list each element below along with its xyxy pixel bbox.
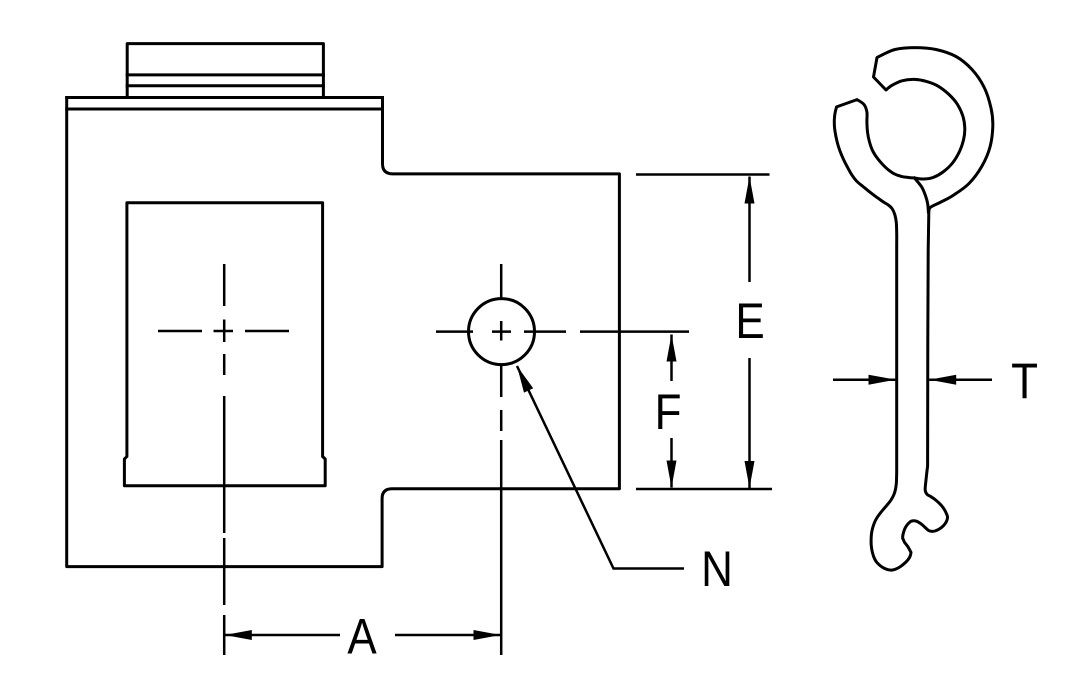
side view stem to hole junction line — [915, 178, 929, 212]
front view: serrated mounting tab — [127, 44, 323, 98]
N leader arrowhead — [517, 366, 533, 393]
A right arrowhead — [474, 630, 501, 640]
svg-text:A: A — [347, 608, 377, 664]
dimension A line — [225, 634, 501, 637]
E bottom arrowhead — [745, 461, 755, 488]
E top extension line — [636, 173, 770, 176]
T left arrowhead — [869, 375, 896, 385]
window horizontal centerline — [158, 330, 289, 333]
F bottom arrowhead — [667, 461, 677, 488]
window vertical centerline — [223, 264, 226, 655]
A left arrowhead — [225, 630, 252, 640]
svg-text:F: F — [655, 383, 682, 439]
dimension T left arrow line — [833, 378, 896, 381]
hole N — [469, 299, 535, 365]
tab rib line 2 — [127, 84, 323, 87]
tab rib line 1 — [127, 73, 323, 76]
svg-text:N: N — [701, 540, 733, 596]
E/F bottom extension line — [636, 488, 772, 491]
hole horizontal centerline — [436, 330, 566, 333]
hole vertical centerline — [500, 264, 503, 655]
dimension E line — [748, 177, 751, 489]
svg-text:E: E — [735, 292, 764, 348]
E top arrowhead — [745, 177, 755, 204]
F top extension line — [580, 330, 689, 333]
main body outline — [67, 98, 620, 567]
side view: clip profile outline — [834, 48, 993, 571]
top flange band top edge — [67, 96, 383, 99]
leader line for N — [517, 366, 684, 569]
dimension T right arrow line — [929, 378, 992, 381]
T right arrowhead — [929, 375, 956, 385]
inner window opening — [124, 203, 325, 486]
F top arrowhead — [667, 335, 677, 362]
svg-text:T: T — [1011, 352, 1038, 408]
top flange band bottom edge — [67, 108, 383, 111]
dimension F line — [670, 335, 673, 488]
